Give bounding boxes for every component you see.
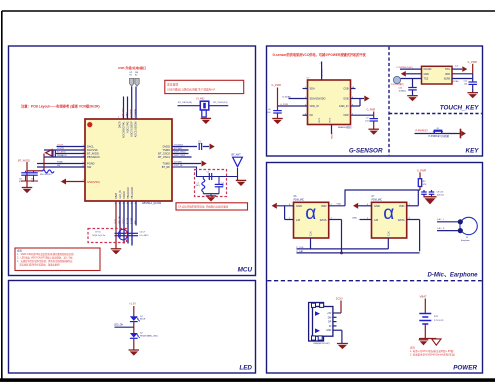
svg-text:FB1 GZ2012: FB1 GZ2012 <box>40 174 52 176</box>
svg-text:3.7V-4.2V: 3.7V-4.2V <box>434 320 444 322</box>
svg-text:SDA: SDA <box>310 88 315 91</box>
svg-text:α: α <box>383 203 394 224</box>
svg-text:GND: GND <box>374 204 380 208</box>
svg-text:C8 C16: C8 C16 <box>437 192 445 194</box>
svg-text:TOUCH_KEY: TOUCH_KEY <box>440 104 480 111</box>
svg-text:GSB: GSB <box>343 98 349 101</box>
svg-text:DATA: DATA <box>320 218 327 222</box>
svg-text:C9 C5: C9 C5 <box>95 231 102 233</box>
svg-text:α: α <box>305 203 316 224</box>
svg-text:PGND: PGND <box>57 162 63 164</box>
svg-text:DM: DM <box>135 72 138 74</box>
svg-text:POWER: POWER <box>453 365 477 372</box>
svg-text:BT_RF: BT_RF <box>162 165 171 169</box>
svg-text:PB2/ADC2: PB2/ADC2 <box>127 187 130 199</box>
svg-text:PA0/INT: PA0/INT <box>331 130 334 139</box>
svg-text:TOG: TOG <box>445 68 450 71</box>
svg-text:USB 升级(充电)接口: USB 升级(充电)接口 <box>118 65 146 70</box>
svg-text:注意事项:: 注意事项: <box>167 82 179 86</box>
svg-text:GND: GND <box>296 204 302 208</box>
svg-text:KEY: KEY <box>466 148 480 155</box>
svg-text:G_SDA0: G_SDA0 <box>282 95 291 98</box>
svg-text:47u: 47u <box>19 181 22 183</box>
svg-text:MCU: MCU <box>238 267 253 274</box>
svg-text:AB5301A_QFN32: AB5301A_QFN32 <box>142 202 162 205</box>
svg-text:103(NC): 103(NC) <box>399 91 407 93</box>
svg-text:BT_AVDD: BT_AVDD <box>18 158 30 162</box>
svg-text:VBAT: VBAT <box>114 218 117 224</box>
svg-text:VDDIO: VDDIO <box>123 217 125 224</box>
svg-text:D-Mic、Earphone: D-Mic、Earphone <box>427 272 478 278</box>
svg-text:VDD: VDD <box>337 204 342 206</box>
svg-text:BT_OSC1(14): BT_OSC1(14) <box>214 102 228 104</box>
svg-text:1. 电池+ 的NTC(可选)接法说明见+ B7图: 1. 电池+ 的NTC(可选)接法说明见+ B7图 <box>410 349 454 353</box>
svg-text:注意：PCB Layout——布线参考 (或者 VCN接2K: 注意：PCB Layout——布线参考 (或者 VCN接2K/2R) <box>21 104 100 109</box>
svg-text:E1: E1 <box>130 74 132 76</box>
svg-text:VDD: VDD <box>399 204 405 208</box>
svg-text:VDD: VDD <box>343 114 348 117</box>
svg-text:0.1u NPO: 0.1u NPO <box>140 235 149 237</box>
svg-text:LED_IN: LED_IN <box>119 190 122 199</box>
svg-text:E2: E2 <box>135 74 137 76</box>
svg-text:DC5V: DC5V <box>336 297 343 301</box>
svg-text:DACR: DACR <box>119 121 122 128</box>
svg-text:VBAT: VBAT <box>420 295 427 299</box>
svg-text:C4 C7: C4 C7 <box>140 231 147 233</box>
svg-text:P_CLK: P_CLK <box>127 217 129 224</box>
svg-text:VDD: VDD <box>321 204 327 208</box>
svg-text:CLK: CLK <box>310 231 313 236</box>
svg-text:SDA/SDI/SDO: SDA/SDI/SDO <box>310 98 326 101</box>
svg-text:104: 104 <box>31 181 34 183</box>
svg-text:X1 XM2: X1 XM2 <box>196 97 205 100</box>
svg-text:DAC_L: DAC_L <box>437 218 445 221</box>
svg-text:USBDM: USBDM <box>135 108 137 116</box>
svg-text:DM: DM <box>328 317 332 319</box>
svg-text:PB1/ADC6: PB1/ADC6 <box>131 187 134 199</box>
svg-text:BT_ANT: BT_ANT <box>232 154 242 157</box>
svg-text:DAC_R: DAC_R <box>437 227 445 230</box>
svg-text:GND_IO: GND_IO <box>339 105 349 108</box>
svg-text:L/R: L/R <box>296 218 300 222</box>
svg-text:C2: C2 <box>207 172 209 174</box>
svg-text:PB0/SCL: PB0/SCL <box>322 68 324 78</box>
svg-text:G_PWR: G_PWR <box>367 109 376 112</box>
svg-text:Earphone: Earphone <box>461 240 471 242</box>
svg-text:BT_AVDD: BT_AVDD <box>57 151 67 154</box>
svg-text:TSMO: TSMO <box>163 148 171 152</box>
svg-text:(NC): (NC) <box>196 185 200 187</box>
svg-text:SW: SW <box>87 165 92 169</box>
svg-text:S2: S2 <box>437 128 439 130</box>
svg-text:TSMO: TSMO <box>163 162 171 166</box>
svg-text:LED: LED <box>239 365 252 372</box>
svg-text:BT_OSC0: BT_OSC0 <box>158 152 170 156</box>
svg-text:DACVSS: DACVSS <box>87 148 98 152</box>
svg-text:USBDP: USBDP <box>131 108 133 116</box>
svg-text:PB7/ADC9: PB7/ADC9 <box>87 155 100 159</box>
svg-text:VBAT: VBAT <box>115 192 118 199</box>
svg-text:G_PWR: G_PWR <box>272 83 282 87</box>
svg-text:G_PWR: G_PWR <box>417 169 427 173</box>
svg-text:BT_AVDD: BT_AVDD <box>87 152 99 156</box>
svg-text:C4:实际天线匹配需调试, 天线阻抗走线尽量短: C4:实际天线匹配需调试, 天线阻抗走线尽量短 <box>178 205 229 209</box>
svg-text:BT_OSC0(15): BT_OSC0(15) <box>178 102 192 104</box>
svg-text:PGND: PGND <box>87 162 95 166</box>
svg-text:DP: DP <box>328 322 332 324</box>
svg-text:PDM_MIC: PDM_MIC <box>372 200 383 202</box>
svg-text:DACL: DACL <box>87 145 94 149</box>
svg-text:PDM_MIC: PDM_MIC <box>294 200 305 202</box>
svg-text:LED_DN: LED_DN <box>119 216 121 224</box>
svg-text:P_DAT: P_DAT <box>297 250 305 253</box>
svg-text:+5V: +5V <box>327 313 332 315</box>
svg-text:ADC0/MIC/PA1: ADC0/MIC/PA1 <box>123 121 126 138</box>
svg-text:LED_DN: LED_DN <box>114 325 123 327</box>
svg-text:P_DAT: P_DAT <box>130 217 133 224</box>
svg-text:+1.3V: +1.3V <box>129 302 136 306</box>
svg-text:L/R: L/R <box>374 218 378 222</box>
svg-text:INT2: INT2 <box>330 117 332 123</box>
svg-text:GND: GND <box>424 73 430 76</box>
svg-text:VDD: VDD <box>445 73 450 76</box>
svg-text:P_CLK: P_CLK <box>297 247 304 249</box>
svg-text:CSB: CSB <box>343 88 348 91</box>
svg-text:2-PB4: 2-PB4 <box>453 81 458 83</box>
svg-text:USB升级接口(测试点)预留,生产调试用A.P.: USB升级接口(测试点)预留,生产调试用A.P. <box>167 88 216 92</box>
svg-text:NC: NC <box>310 114 314 117</box>
svg-text:OC/GD: OC/GD <box>424 68 432 71</box>
svg-text:P-PWRKEY: P-PWRKEY <box>416 129 429 132</box>
svg-text:CLK: CLK <box>388 231 391 236</box>
svg-text:BT_OSC1: BT_OSC1 <box>158 155 170 159</box>
svg-text:PB7/ADC9: PB7/ADC9 <box>57 154 68 157</box>
svg-text:ADC1/PA2: ADC1/PA2 <box>127 121 130 133</box>
svg-text:GND: GND <box>352 217 357 219</box>
svg-text:INT1: INT1 <box>319 117 321 123</box>
svg-text:USB(MICRO-5P): USB(MICRO-5P) <box>313 343 330 345</box>
svg-text:2: 2 <box>118 117 119 119</box>
svg-text:DVDD: DVDD <box>163 145 170 149</box>
svg-text:VOUTL: VOUTL <box>57 145 65 147</box>
svg-text:SLRB: SLRB <box>444 78 451 81</box>
svg-text:GND(VSS): GND(VSS) <box>87 180 100 184</box>
svg-text:ID: ID <box>329 326 332 328</box>
svg-text:G_PWR: G_PWR <box>280 104 288 106</box>
svg-text:GND: GND <box>326 330 331 332</box>
svg-text:G-sensor的供电采用VCC供电，可减少POWER按键式: G-sensor的供电采用VCC供电，可减少POWER按键式开机的干扰 <box>273 52 367 57</box>
svg-text:RED(STAND_LED): RED(STAND_LED) <box>140 334 158 337</box>
svg-text:2. 电池参考型号500/40-60mAh系列(可选): 2. 电池参考型号500/40-60mAh系列(可选) <box>410 352 455 356</box>
svg-text:104 104: 104 104 <box>437 195 445 197</box>
svg-text:G_PWR: G_PWR <box>468 60 478 64</box>
svg-text:SW: SW <box>57 165 60 167</box>
svg-text:3: 3 <box>115 203 116 205</box>
svg-text:VOUTR: VOUTR <box>57 148 65 150</box>
svg-text:ADC2/USBDM: ADC2/USBDM <box>135 122 138 138</box>
svg-text:TCS: TCS <box>424 78 429 81</box>
svg-text:DATA: DATA <box>398 218 405 222</box>
svg-text:G-SENSOR: G-SENSOR <box>349 148 383 155</box>
svg-text:PA1/MIC: PA1/MIC <box>121 108 124 116</box>
svg-text:NC(0.1u) 2.2u: NC(0.1u) 2.2u <box>93 235 106 237</box>
svg-text:ADC7/USBDP: ADC7/USBDP <box>131 121 134 137</box>
svg-text:7: 7 <box>319 63 320 65</box>
svg-text:VDDIO: VDDIO <box>123 191 126 199</box>
svg-text:VDD_IO: VDD_IO <box>310 105 319 108</box>
svg-text:BLUE: BLUE <box>140 319 146 321</box>
